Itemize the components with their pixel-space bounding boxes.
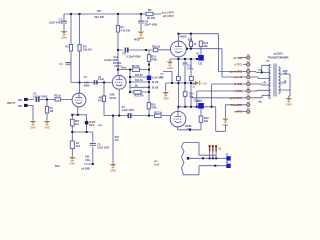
svg-text:5965: 5965 <box>84 85 90 88</box>
svg-text:6000: 6000 <box>89 125 95 127</box>
svg-text:R5: R5 <box>148 8 152 12</box>
svg-text:Plate(TC): Plate(TC) <box>231 103 243 107</box>
svg-text:2k4: 2k4 <box>76 145 81 148</box>
svg-text:470k: 470k <box>151 59 157 62</box>
svg-text:0.47uF 630V: 0.47uF 630V <box>33 95 48 98</box>
svg-text:R2 1k: R2 1k <box>54 94 61 98</box>
svg-text:100u: 100u <box>85 159 91 162</box>
svg-text:green(TC): green(TC) <box>230 70 242 74</box>
svg-text:24k 1W: 24k 1W <box>83 49 92 52</box>
svg-text:TRANSFORMER: TRANSFORMER <box>268 55 289 59</box>
svg-text:INPUT: INPUT <box>7 101 16 105</box>
svg-text:470k: 470k <box>151 106 157 109</box>
svg-text:Plate: Plate <box>121 66 127 69</box>
svg-text:8R: 8R <box>284 73 287 75</box>
svg-text:GND: GND <box>223 123 229 127</box>
svg-text:2.2uF 450V: 2.2uF 450V <box>122 109 135 112</box>
svg-text:R21: R21 <box>115 137 120 139</box>
svg-text:GND: GND <box>30 126 36 130</box>
svg-text:GND: GND <box>44 126 50 130</box>
svg-text:2.2uF 100V: 2.2uF 100V <box>97 147 109 149</box>
svg-text:R16: R16 <box>188 38 193 41</box>
svg-text:0.47u: 0.47u <box>187 67 193 70</box>
svg-text:a6 GND: a6 GND <box>82 168 91 171</box>
svg-text:GND: GND <box>163 97 169 101</box>
svg-text:+280: +280 <box>201 82 207 85</box>
svg-text:R6: R6 <box>97 9 101 13</box>
svg-text:22uF 450V: 22uF 450V <box>49 21 62 25</box>
svg-text:R12 27k: R12 27k <box>135 94 145 97</box>
svg-text:3k 1W: 3k 1W <box>152 88 159 90</box>
svg-text:R17 1k: R17 1k <box>154 111 163 114</box>
svg-text:27k: 27k <box>98 99 103 102</box>
svg-text:C13: C13 <box>187 66 192 68</box>
svg-text:+B 415V: +B 415V <box>163 14 174 18</box>
svg-text:R10 5k: R10 5k <box>135 74 143 77</box>
svg-text:10k: 10k <box>204 45 209 48</box>
svg-text:+B (TC): +B (TC) <box>233 56 242 60</box>
svg-text:2k 1W: 2k 1W <box>147 16 155 20</box>
svg-text:B (TC): B (TC) <box>234 82 242 86</box>
svg-text:ac250V: ac250V <box>273 51 282 55</box>
svg-text:0.22uF 630V: 0.22uF 630V <box>127 55 142 58</box>
svg-text:R14: R14 <box>189 93 194 96</box>
svg-text:R11 5k: R11 5k <box>135 79 143 82</box>
svg-text:2k4 1W: 2k4 1W <box>94 15 104 19</box>
svg-text:22uF 450V: 22uF 450V <box>145 23 158 27</box>
svg-text:R8 27k: R8 27k <box>132 65 140 68</box>
svg-text:B1b: B1b <box>98 125 103 127</box>
svg-text:green(TC): green(TC) <box>230 96 242 100</box>
svg-text:A (TC): A (TC) <box>234 63 242 67</box>
svg-text:pwr+B: pwr+B <box>234 75 242 79</box>
svg-text:C11: C11 <box>198 63 203 66</box>
svg-text:3k 1W: 3k 1W <box>152 82 159 84</box>
svg-text:10k: 10k <box>204 120 209 123</box>
svg-text:GND: GND <box>286 103 292 107</box>
svg-text:6.3V: 6.3V <box>154 162 160 166</box>
svg-text:IN2: IN2 <box>18 105 23 108</box>
svg-text:A (TC): A (TC) <box>234 89 242 93</box>
svg-text:+B: +B <box>263 81 266 84</box>
svg-text:blu: blu <box>259 101 263 103</box>
svg-text:4R: 4R <box>284 80 287 83</box>
svg-text:0.1uF: 0.1uF <box>98 79 105 81</box>
svg-text:GND: GND <box>69 162 75 166</box>
svg-text:vio: vio <box>154 159 158 163</box>
svg-text:GND: GND <box>110 169 116 173</box>
svg-text:IN1: IN1 <box>18 99 23 102</box>
svg-text:B1b: B1b <box>55 165 60 168</box>
svg-text:w (TC): w (TC) <box>234 110 242 114</box>
svg-text:C3: C3 <box>122 52 126 56</box>
svg-text:2k4: 2k4 <box>75 123 80 126</box>
svg-text:GND: GND <box>167 66 173 70</box>
svg-text:GND: GND <box>61 36 67 40</box>
svg-text:6FQ7: 6FQ7 <box>134 38 141 41</box>
svg-text:45W: 45W <box>283 70 289 73</box>
svg-text:1M: 1M <box>50 109 54 113</box>
svg-text:R16 1k: R16 1k <box>152 46 161 49</box>
svg-text:6550C: 6550C <box>180 36 187 39</box>
svg-text:4.7k 1W: 4.7k 1W <box>121 29 131 32</box>
svg-text:6CG7: 6CG7 <box>110 96 117 100</box>
